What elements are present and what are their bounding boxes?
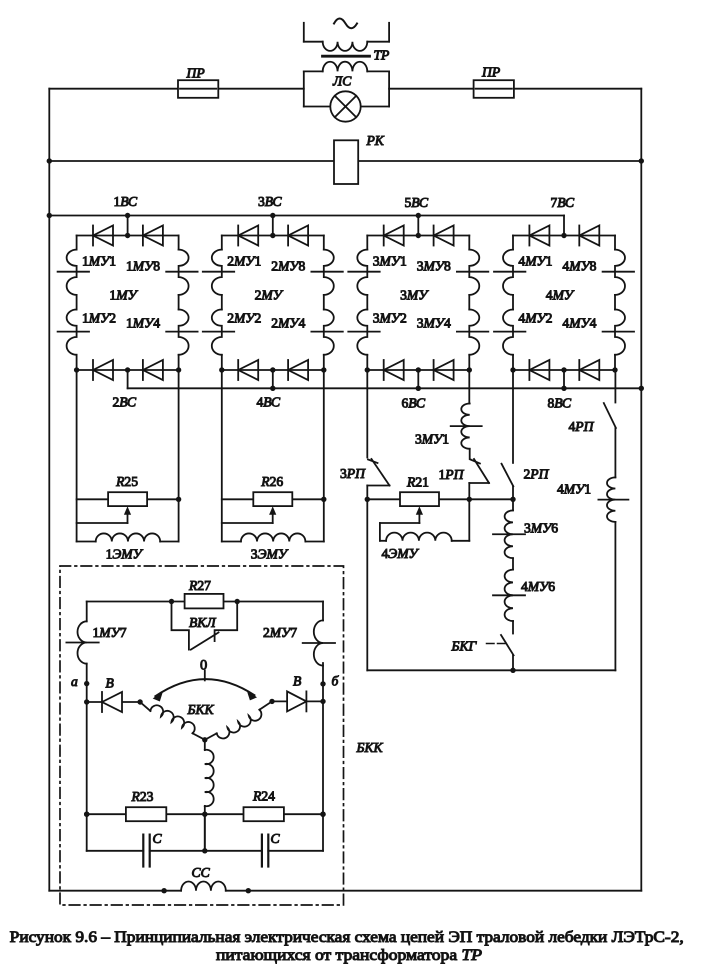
svg-text:С: С — [271, 831, 281, 846]
svg-text:3МУ8: 3МУ8 — [417, 258, 451, 273]
svg-text:4ЭМУ: 4ЭМУ — [382, 546, 420, 561]
svg-text:5ВС: 5ВС — [405, 195, 429, 210]
svg-text:ТР: ТР — [374, 48, 390, 63]
svg-text:В: В — [106, 676, 114, 691]
svg-text:1РП: 1РП — [439, 467, 465, 482]
svg-text:БКК: БКК — [187, 702, 215, 717]
svg-text:R21: R21 — [406, 475, 429, 490]
svg-text:4ВС: 4ВС — [257, 395, 281, 410]
svg-text:6ВС: 6ВС — [402, 396, 426, 411]
svg-text:2МУ7: 2МУ7 — [263, 625, 297, 640]
svg-text:4МУ4: 4МУ4 — [562, 315, 596, 330]
svg-text:7ВС: 7ВС — [551, 195, 575, 210]
svg-text:0: 0 — [200, 658, 207, 674]
svg-text:8ВС: 8ВС — [548, 396, 572, 411]
svg-text:R25: R25 — [115, 474, 138, 489]
svg-text:1ЭМУ: 1ЭМУ — [106, 547, 144, 562]
svg-text:4МУ: 4МУ — [546, 288, 575, 303]
svg-text:3МУ4: 3МУ4 — [417, 315, 451, 330]
svg-text:3МУ6: 3МУ6 — [524, 521, 558, 536]
svg-text:2МУ8: 2МУ8 — [271, 258, 305, 273]
svg-text:4МУ8: 4МУ8 — [562, 258, 596, 273]
svg-text:ПР: ПР — [186, 66, 205, 81]
svg-text:4РП: 4РП — [569, 419, 595, 434]
svg-text:ЛС: ЛС — [332, 74, 352, 89]
svg-text:1МУ7: 1МУ7 — [93, 625, 127, 640]
svg-text:1МУ2: 1МУ2 — [82, 310, 116, 325]
svg-text:2МУ: 2МУ — [255, 288, 284, 303]
svg-text:б: б — [332, 674, 340, 689]
svg-text:3ВС: 3ВС — [258, 194, 282, 209]
svg-text:4МУ1: 4МУ1 — [518, 253, 552, 268]
svg-text:С: С — [153, 831, 163, 846]
svg-text:R23: R23 — [131, 789, 154, 804]
svg-text:1МУ: 1МУ — [109, 288, 138, 303]
svg-text:3РП: 3РП — [340, 466, 366, 481]
svg-text:питающихся от трансформатора Т: питающихся от трансформатора ТР — [216, 947, 482, 964]
svg-text:R26: R26 — [260, 474, 283, 489]
svg-text:БКК: БКК — [356, 740, 384, 755]
svg-text:R27: R27 — [188, 578, 211, 593]
svg-text:4МУ1: 4МУ1 — [557, 482, 591, 497]
svg-text:ВКЛ: ВКЛ — [189, 615, 216, 630]
svg-text:В: В — [293, 674, 301, 689]
svg-text:2ВС: 2ВС — [113, 395, 137, 410]
svg-text:РК: РК — [366, 133, 385, 148]
svg-text:1МУ1: 1МУ1 — [82, 253, 116, 268]
svg-text:ПР: ПР — [481, 65, 500, 80]
svg-text:Рисунок 9.6 – Принципиальная э: Рисунок 9.6 – Принципиальная электрическ… — [10, 929, 684, 946]
svg-text:3МУ1: 3МУ1 — [415, 432, 449, 447]
svg-text:СС: СС — [192, 865, 211, 880]
svg-text:3МУ1: 3МУ1 — [373, 253, 407, 268]
svg-text:3МУ: 3МУ — [400, 288, 429, 303]
svg-text:БКГ: БКГ — [451, 639, 478, 654]
svg-text:а: а — [71, 674, 78, 689]
svg-text:4МУ2: 4МУ2 — [518, 310, 552, 325]
svg-text:1МУ4: 1МУ4 — [126, 315, 160, 330]
svg-text:1ВС: 1ВС — [114, 194, 138, 209]
svg-text:2МУ4: 2МУ4 — [271, 315, 305, 330]
svg-text:1МУ8: 1МУ8 — [126, 258, 160, 273]
svg-text:2РП: 2РП — [524, 467, 550, 482]
svg-text:R24: R24 — [252, 789, 275, 804]
svg-text:3МУ2: 3МУ2 — [373, 310, 407, 325]
svg-text:2МУ2: 2МУ2 — [227, 310, 261, 325]
svg-text:2МУ1: 2МУ1 — [227, 253, 261, 268]
svg-text:3ЭМУ: 3ЭМУ — [251, 547, 289, 562]
svg-text:4МУ6: 4МУ6 — [521, 579, 555, 594]
